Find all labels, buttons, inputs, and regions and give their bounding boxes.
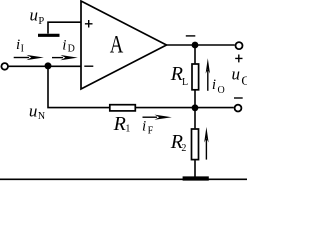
svg-text:O: O xyxy=(241,73,247,88)
svg-text:u: u xyxy=(29,101,38,120)
svg-text:N: N xyxy=(38,111,45,122)
svg-text:u: u xyxy=(30,6,39,25)
svg-text:i: i xyxy=(62,37,66,53)
svg-text:D: D xyxy=(68,44,75,55)
svg-text:i: i xyxy=(142,119,146,135)
svg-text:F: F xyxy=(148,126,154,137)
svg-text:R: R xyxy=(113,113,126,135)
svg-text:A: A xyxy=(110,30,124,58)
svg-text:P: P xyxy=(38,16,44,27)
svg-text:I: I xyxy=(21,44,24,55)
svg-text:i: i xyxy=(212,77,216,93)
svg-text:O: O xyxy=(218,85,225,96)
svg-text:2: 2 xyxy=(181,143,186,154)
svg-text:1: 1 xyxy=(125,124,130,135)
svg-text:L: L xyxy=(182,77,188,88)
svg-text:u: u xyxy=(232,64,241,83)
svg-text:i: i xyxy=(16,37,20,53)
